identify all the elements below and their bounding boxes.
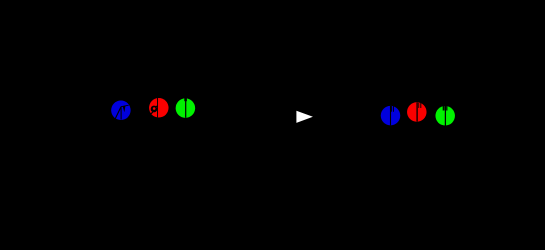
glyph stroke: lower-left tail on left-red [149,112,153,114]
glyph stroke: short tick 2 on right-red [420,103,422,108]
glyph stroke: diagonal leg on left-blue [115,107,121,119]
glyph stroke: bowl counter (hole) on left-red [153,107,156,110]
node left-red [149,98,169,118]
glyph stroke: right wedge on left-blue [123,106,126,113]
node right-blue [381,106,401,126]
glyph stroke: vertical stem on right-red [416,103,418,122]
node right-red [407,102,427,122]
glyph stroke: top bar on left-blue [121,105,129,107]
arrowhead [296,111,313,123]
glyph stroke: top block on left-green [184,98,187,101]
glyph stroke: short tick right on right-green [446,106,448,111]
glyph stroke: bridge to stem on left-red [156,105,158,107]
glyph stroke: vertical stem on right-blue [390,106,392,126]
glyph stroke: bowl on left-red [151,106,158,113]
glyph stroke: short tick 1 on right-red [418,103,420,108]
glyph stroke: short tick left on right-green [443,106,445,111]
node right-green [435,106,455,126]
glyph stroke: faint top patch on right-green [443,106,448,111]
node left-green [176,98,196,118]
glyph stroke: vertical stem on left-blue [120,106,122,119]
glyph stroke: short tick 2 on right-blue [393,106,395,112]
glyph stroke: vertical stem on left-green [185,98,187,118]
glyph stroke: vertical stem on left-red [157,98,159,117]
glyph stroke: short tick 1 on right-blue [391,106,393,112]
glyph stroke: vertical stem on right-green [444,106,446,126]
node left-blue [111,101,130,121]
